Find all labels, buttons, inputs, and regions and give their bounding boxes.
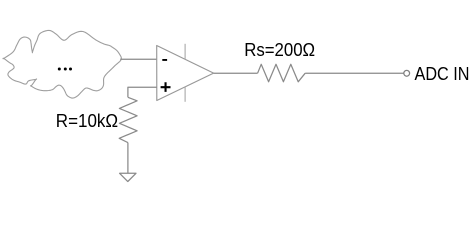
terminal ADC IN node (404, 70, 410, 76)
op-amp U1 (157, 46, 214, 101)
wire op-amp non-inverting input (128, 87, 157, 97)
op-amp negative supply pin (184, 87, 186, 102)
op-amp positive supply pin (184, 44, 186, 60)
wire cloud to op-amp inverting input (120, 58, 157, 60)
op-amp inverting input label minus (162, 59, 167, 61)
signal source ellipsis dots (58, 68, 61, 71)
ground (120, 173, 136, 181)
svg-text:R=10kΩ: R=10kΩ (56, 111, 118, 131)
resistor R1 10k (119, 97, 137, 142)
svg-text:ADC IN: ADC IN (415, 64, 470, 84)
wire resistor Rs to ADC terminal (305, 72, 404, 74)
wire resistor to ground (127, 143, 129, 174)
signal source cloud (3, 30, 121, 98)
op-amp non-inverting input label plus (161, 82, 171, 92)
resistor Rs 200 (258, 64, 306, 82)
wire op-amp output (214, 72, 258, 74)
svg-text:Rs=200Ω: Rs=200Ω (244, 40, 315, 60)
